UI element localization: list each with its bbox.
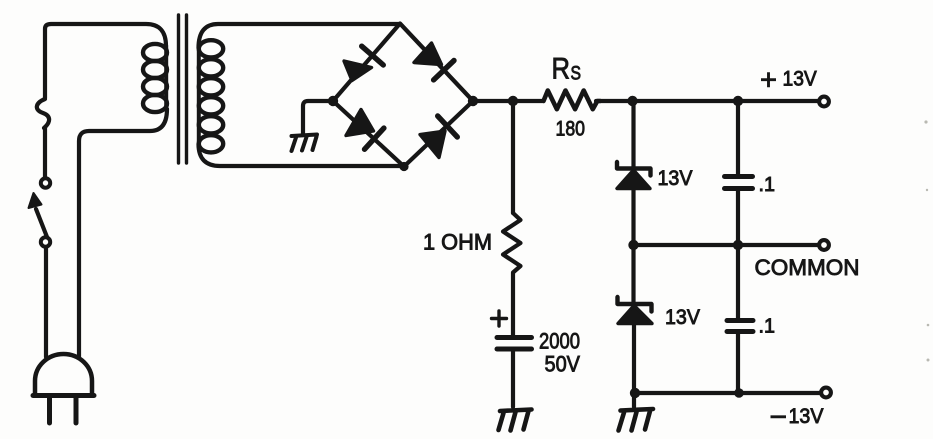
svg-text:180: 180 — [556, 118, 586, 141]
svg-text:.1: .1 — [759, 174, 776, 196]
svg-text:R: R — [552, 53, 571, 86]
svg-text:2000: 2000 — [539, 329, 580, 354]
svg-text:S: S — [571, 63, 582, 85]
svg-text:13V: 13V — [665, 306, 700, 329]
svg-text:13V: 13V — [658, 167, 693, 190]
svg-text:50V: 50V — [545, 352, 581, 377]
svg-text:1 OHM: 1 OHM — [423, 229, 492, 254]
svg-text:13V: 13V — [789, 404, 825, 428]
svg-text:13V: 13V — [783, 68, 817, 91]
svg-text:COMMON: COMMON — [755, 255, 860, 280]
svg-text:.1: .1 — [759, 316, 776, 338]
